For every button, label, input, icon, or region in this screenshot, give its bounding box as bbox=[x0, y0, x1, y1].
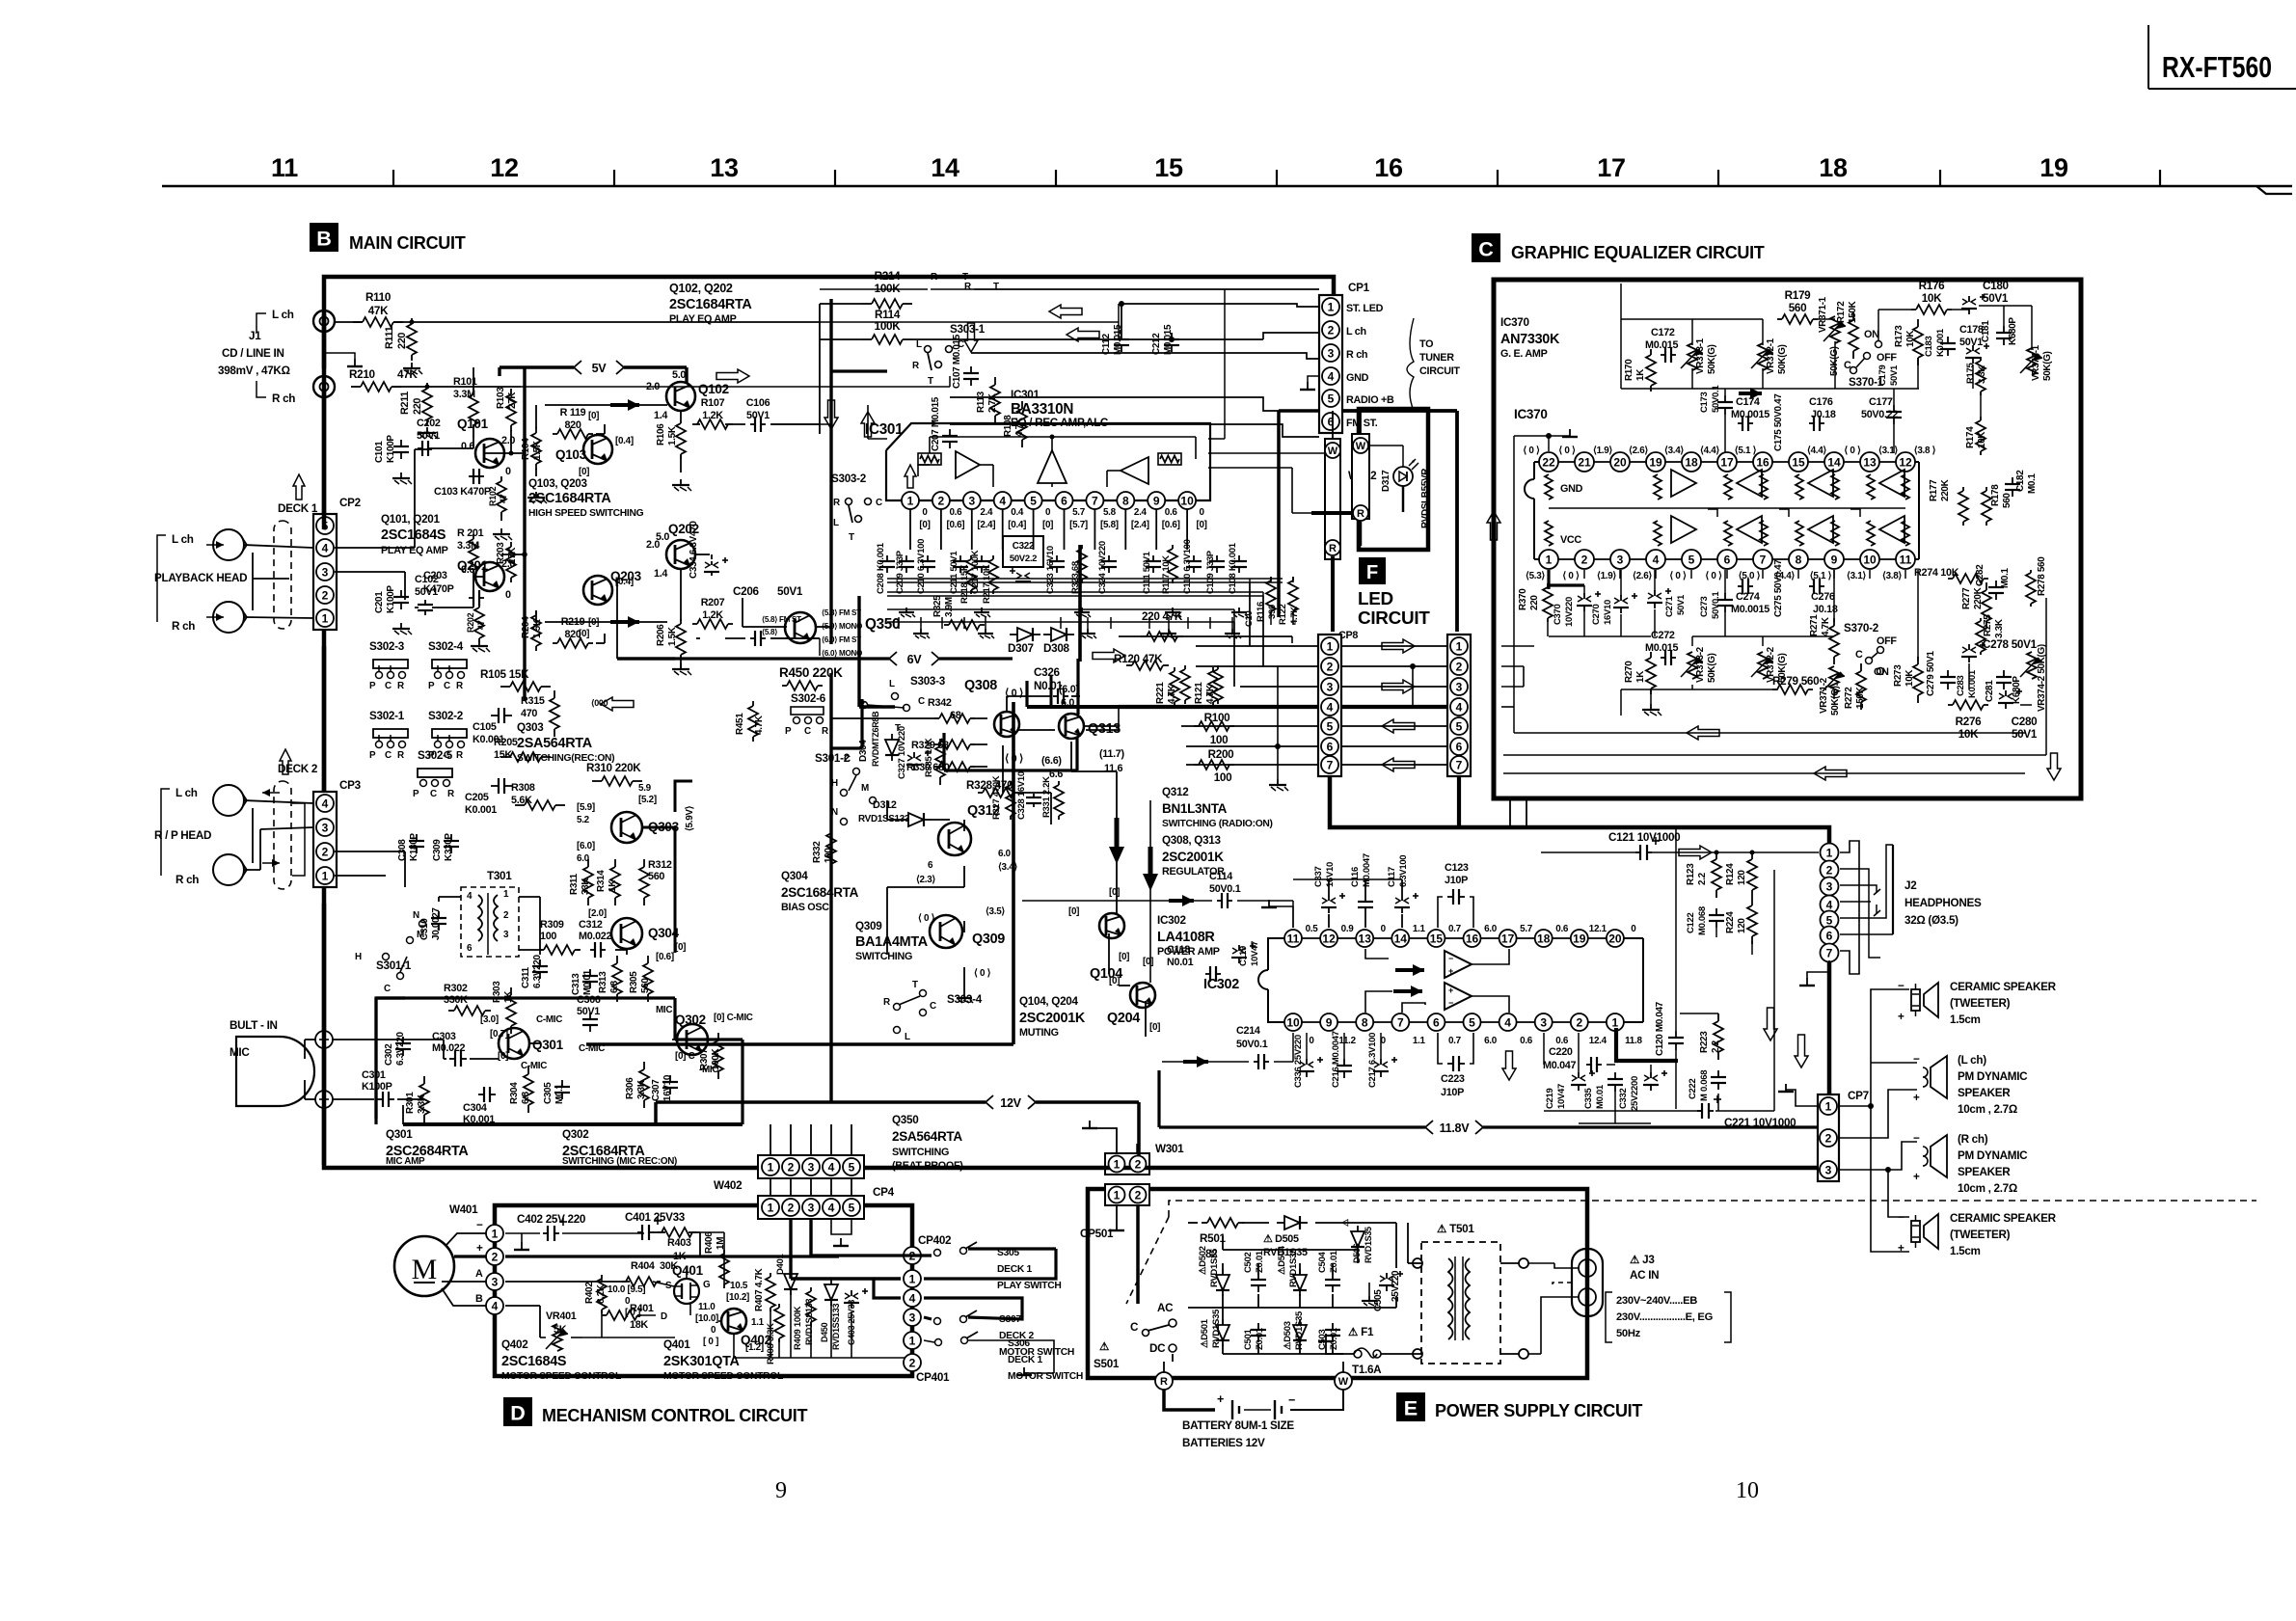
svg-text:W401: W401 bbox=[449, 1203, 478, 1216]
resistor R276 10K bbox=[1948, 700, 1988, 710]
label R330 bbox=[906, 762, 950, 773]
wire muting thick bbox=[656, 1102, 771, 1124]
label R120 bbox=[1114, 653, 1163, 665]
ceramic speaker tweeter bbox=[1898, 980, 1938, 1023]
svg-text:R407 4.7K: R407 4.7K bbox=[754, 1267, 765, 1311]
IC301 pins bbox=[902, 492, 1196, 509]
dynamic speaker bbox=[1913, 1132, 1947, 1183]
label C116 bbox=[1350, 853, 1372, 887]
label battery bbox=[1182, 1419, 1294, 1449]
label C279 vert bbox=[1926, 650, 1936, 696]
label R110 bbox=[365, 291, 392, 317]
svg-text:C-MIC: C-MIC bbox=[521, 1061, 547, 1071]
svg-text:J0.0027: J0.0027 bbox=[431, 907, 442, 940]
label Q202 bbox=[668, 522, 699, 536]
svg-text:IC302: IC302 bbox=[1157, 914, 1186, 927]
resistor R409 100K bbox=[806, 1287, 816, 1326]
IC302 pins bottom bbox=[1284, 1013, 1642, 1046]
capacitor C305 M0.1 bbox=[554, 1080, 570, 1099]
svg-text:[0]: [0] bbox=[675, 942, 686, 953]
svg-text:R403: R403 bbox=[667, 1237, 691, 1249]
capacitor C219 10V47 bbox=[1571, 1070, 1595, 1091]
connector CP402 pins bbox=[904, 1247, 921, 1371]
label R217 bbox=[982, 564, 992, 604]
svg-text:10cm , 2.7Ω: 10cm , 2.7Ω bbox=[1958, 1182, 2017, 1195]
label R273 bbox=[1893, 664, 1915, 687]
label R325b bbox=[932, 595, 955, 617]
svg-text:32Ω (Ø3.5): 32Ω (Ø3.5) bbox=[1904, 914, 1958, 927]
svg-text:50Hz: 50Hz bbox=[1616, 1328, 1641, 1339]
svg-text:C305: C305 bbox=[543, 1082, 554, 1104]
svg-text:150K: 150K bbox=[1855, 686, 1866, 709]
arrow small1 bbox=[591, 698, 608, 708]
svg-text:R170: R170 bbox=[1624, 359, 1634, 381]
svg-text:18: 18 bbox=[1819, 153, 1848, 182]
svg-text:C205: C205 bbox=[465, 792, 489, 803]
wires cp4 verticals bbox=[770, 1124, 851, 1196]
label C201 bbox=[374, 585, 396, 613]
capacitor C216 M0.0047 bbox=[1337, 1059, 1352, 1078]
svg-text:398mV , 47KΩ: 398mV , 47KΩ bbox=[218, 365, 290, 377]
svg-text:PM DYNAMIC: PM DYNAMIC bbox=[1958, 1149, 2028, 1162]
svg-text:3: 3 bbox=[968, 494, 975, 507]
svg-text:S370-2: S370-2 bbox=[1844, 622, 1879, 635]
transistor Q102 bbox=[666, 382, 695, 411]
label C280 bbox=[2012, 716, 2039, 741]
resistor R179 560 bbox=[1777, 314, 1818, 324]
svg-text:⟨ 0 ⟩: ⟨ 0 ⟩ bbox=[1844, 446, 1861, 456]
label R218 bbox=[959, 564, 970, 604]
label CP2 bbox=[339, 497, 362, 509]
svg-text:C216 M0.0047: C216 M0.0047 bbox=[1331, 1031, 1341, 1088]
capacitor C307 16V10 bbox=[662, 1075, 678, 1094]
wire bbox=[1687, 726, 1719, 740]
ruler number 16 bbox=[1374, 153, 1403, 182]
svg-text:5.8: 5.8 bbox=[1103, 507, 1117, 518]
svg-text:L: L bbox=[889, 679, 895, 689]
label R122 bbox=[1278, 604, 1300, 625]
svg-text:C327 10V220: C327 10V220 bbox=[897, 726, 907, 779]
label Q309 v bbox=[918, 906, 1005, 979]
resistor R370 220 bbox=[1543, 583, 1553, 622]
svg-text:13: 13 bbox=[1359, 932, 1372, 945]
capacitor C312 M0.022 bbox=[590, 942, 606, 958]
svg-text:K100P: K100P bbox=[386, 435, 396, 463]
svg-text:C106: C106 bbox=[746, 397, 770, 409]
wires geq upper bbox=[1621, 306, 2032, 453]
svg-text:SPEAKER: SPEAKER bbox=[1958, 1166, 2011, 1178]
capacitor C176 J0.18 bbox=[1809, 416, 1824, 431]
svg-text:2.4: 2.4 bbox=[1134, 507, 1148, 518]
svg-text:[1.2]: [1.2] bbox=[745, 1342, 764, 1353]
svg-text:MIC: MIC bbox=[656, 1005, 672, 1015]
svg-text:18: 18 bbox=[1537, 932, 1551, 945]
svg-text:−: − bbox=[1448, 954, 1453, 963]
connector CP8-right bbox=[1447, 635, 1471, 776]
svg-text:RVD1S35: RVD1S35 bbox=[1294, 1310, 1305, 1350]
svg-text:C182: C182 bbox=[2015, 470, 2026, 492]
wires into CP8 left bbox=[1119, 646, 1318, 779]
svg-text:C313: C313 bbox=[571, 973, 581, 995]
label Q302 bbox=[675, 1013, 706, 1027]
svg-text:B: B bbox=[475, 1293, 483, 1305]
svg-text:Q308, Q313: Q308, Q313 bbox=[1162, 834, 1221, 847]
svg-text:R102: R102 bbox=[488, 486, 498, 506]
svg-text:C304: C304 bbox=[463, 1102, 487, 1114]
wires geq to bus verticals bbox=[1510, 800, 1526, 827]
wire c120 bbox=[1675, 828, 1677, 1109]
capacitor C223 J10P bbox=[1447, 1056, 1465, 1071]
svg-text:R172: R172 bbox=[1836, 301, 1847, 323]
resistor R100 100 bbox=[1194, 721, 1234, 731]
svg-text:0: 0 bbox=[505, 466, 511, 477]
svg-text:8: 8 bbox=[1796, 553, 1802, 566]
wire run to CP1 a bbox=[820, 304, 1119, 322]
svg-text:R327 470K: R327 470K bbox=[991, 775, 1002, 820]
svg-text:50V1: 50V1 bbox=[417, 430, 440, 442]
mechanism control circuit border bbox=[495, 1205, 912, 1376]
gnd stub cp1 bbox=[1308, 376, 1319, 382]
capacitor C336 25V220 bbox=[1299, 1057, 1323, 1077]
svg-text:+: + bbox=[1913, 1092, 1920, 1104]
svg-text:27K: 27K bbox=[507, 392, 518, 409]
potentiometer VR401 5K bbox=[546, 1324, 568, 1351]
svg-text:6.8: 6.8 bbox=[521, 1091, 531, 1104]
svg-text:1.4: 1.4 bbox=[654, 410, 667, 421]
node 11.8V rail bbox=[1425, 1121, 1483, 1135]
svg-text:4: 4 bbox=[1327, 700, 1334, 714]
svg-text:2: 2 bbox=[788, 1160, 795, 1174]
svg-text:C177: C177 bbox=[1869, 396, 1893, 408]
resistor R178 560 bbox=[1982, 487, 1991, 526]
svg-text:6: 6 bbox=[1327, 740, 1334, 753]
svg-text:CP4: CP4 bbox=[873, 1186, 895, 1199]
svg-text:10.0 [9.5]: 10.0 [9.5] bbox=[608, 1284, 645, 1295]
wire w301 to power left bbox=[0, 0, 1, 1]
resistor R303 1K bbox=[506, 987, 516, 1034]
label R342 bbox=[928, 697, 961, 721]
svg-text:Q102: Q102 bbox=[698, 382, 729, 396]
wire bbox=[1764, 1008, 1777, 1040]
svg-text:VR372-1: VR372-1 bbox=[1766, 338, 1776, 374]
wire pin20 to pin1 loop bbox=[0, 0, 1, 1]
wire bbox=[1382, 680, 1415, 693]
svg-text:C208 K0.001: C208 K0.001 bbox=[876, 542, 886, 594]
svg-text:⟨000: ⟨000 bbox=[591, 698, 608, 708]
svg-text:C217 6.3V100: C217 6.3V100 bbox=[1367, 1033, 1378, 1088]
transistor Q103 bbox=[583, 435, 612, 464]
label R408 bbox=[766, 1323, 776, 1364]
capacitor C327 10V220 bbox=[906, 750, 931, 770]
IC301 outline bbox=[886, 423, 1210, 500]
potentiometer VR372-2 bbox=[1751, 652, 1773, 679]
capacitor C335 M0.01 bbox=[1607, 1072, 1623, 1092]
diode D308 bbox=[1043, 628, 1074, 641]
svg-text:C174: C174 bbox=[1736, 396, 1760, 408]
wires long below ic301 bbox=[887, 579, 1283, 687]
svg-text:17: 17 bbox=[1501, 932, 1515, 945]
svg-text:[0]: [0] bbox=[588, 411, 599, 421]
capacitor C212 M0.015 bbox=[1164, 333, 1179, 352]
wire cp501 down bbox=[0, 0, 1, 1]
svg-text:[0.6]: [0.6] bbox=[1162, 520, 1180, 530]
svg-text:15K: 15K bbox=[494, 749, 512, 761]
mic amp thick box sides bbox=[376, 998, 743, 1124]
svg-text:M0.01: M0.01 bbox=[582, 969, 593, 995]
svg-text:MECHANISM CONTROL CIRCUIT: MECHANISM CONTROL CIRCUIT bbox=[542, 1406, 807, 1425]
label C178 bbox=[1959, 324, 1984, 348]
svg-text:7: 7 bbox=[1092, 494, 1098, 507]
svg-text:47: 47 bbox=[499, 494, 508, 503]
label R302 bbox=[444, 983, 468, 1006]
svg-text:⟨5.9V⟩: ⟨5.9V⟩ bbox=[685, 805, 695, 831]
resistor R315 470 bbox=[550, 690, 559, 737]
svg-text:2: 2 bbox=[1327, 660, 1334, 673]
svg-text:R: R bbox=[912, 361, 919, 371]
label R210 bbox=[349, 368, 418, 381]
svg-text:C401 25V33: C401 25V33 bbox=[625, 1211, 686, 1224]
svg-text:R278 560: R278 560 bbox=[2037, 556, 2047, 596]
ruler tick bbox=[834, 170, 836, 186]
svg-text:⟨3.5⟩: ⟨3.5⟩ bbox=[986, 906, 1005, 917]
svg-text:R207: R207 bbox=[701, 597, 725, 608]
wire bbox=[1814, 767, 1847, 780]
svg-text:R: R bbox=[833, 498, 840, 508]
label Q102,Q202 PLAY EQ AMP bbox=[669, 282, 752, 325]
svg-text:2: 2 bbox=[322, 845, 329, 858]
svg-text:C270: C270 bbox=[1591, 604, 1602, 625]
resistor R270 1K bbox=[1646, 652, 1656, 694]
capacitor C278 50V1 bbox=[1961, 642, 1985, 662]
switch S302-1 bbox=[369, 710, 408, 761]
svg-text:10V47: 10V47 bbox=[1250, 941, 1260, 966]
svg-text:1.1: 1.1 bbox=[1413, 1036, 1426, 1046]
IC370 wire top left bbox=[1514, 436, 1549, 733]
capacitor C106 50V1 bbox=[750, 417, 766, 432]
svg-text:3: 3 bbox=[1825, 1163, 1832, 1176]
svg-text:C504: C504 bbox=[1317, 1251, 1328, 1273]
ruler tick bbox=[392, 170, 394, 186]
label D450 bbox=[820, 1304, 841, 1350]
label R309 bbox=[540, 919, 564, 942]
power dashed box bbox=[1126, 1201, 2256, 1304]
svg-text:R279 560: R279 560 bbox=[1772, 675, 1820, 688]
svg-text:18: 18 bbox=[1685, 455, 1698, 469]
svg-text:9: 9 bbox=[1326, 1015, 1333, 1029]
label R201 bbox=[457, 527, 484, 552]
svg-text:R116: R116 bbox=[1256, 602, 1266, 622]
svg-text:68: 68 bbox=[950, 710, 961, 721]
label C326 bbox=[1034, 666, 1063, 692]
ground bbox=[403, 363, 422, 374]
svg-text:C271: C271 bbox=[1664, 595, 1675, 617]
svg-text:C112: C112 bbox=[1101, 333, 1112, 355]
connector W302 bar1 bbox=[1325, 439, 1340, 559]
wires mic amp bbox=[333, 1040, 677, 1124]
wire cd gnd stub bbox=[324, 353, 355, 359]
label R329 bbox=[911, 740, 949, 751]
svg-text:M0.1: M0.1 bbox=[2027, 473, 2038, 494]
label R409 bbox=[793, 1306, 803, 1350]
diode D506 bbox=[1351, 1226, 1364, 1253]
capacitor C102 50V1 bbox=[418, 600, 433, 615]
label DECK 1 bbox=[278, 502, 318, 515]
label C118 N0.01 bbox=[1167, 944, 1194, 968]
ground bbox=[514, 1242, 529, 1250]
resistor R204 1.5K bbox=[531, 610, 541, 651]
wire c214 bbox=[1162, 1033, 1293, 1062]
svg-text:230V~240V.....EB: 230V~240V.....EB bbox=[1616, 1295, 1697, 1307]
label CP8b bbox=[1338, 630, 1358, 641]
svg-text:P: P bbox=[369, 750, 376, 761]
svg-text:⚠ F1: ⚠ F1 bbox=[1348, 1326, 1374, 1338]
svg-text:19: 19 bbox=[1649, 455, 1662, 469]
svg-text:Q350: Q350 bbox=[892, 1114, 919, 1126]
thick wire regulator loop bbox=[1050, 675, 1053, 707]
label R219 bbox=[561, 616, 585, 640]
switch S501 bbox=[1094, 1302, 1176, 1370]
label DECK 2 bbox=[278, 763, 318, 775]
label R307 bbox=[699, 1047, 721, 1070]
svg-text:C-MIC: C-MIC bbox=[536, 1014, 562, 1025]
label R174 bbox=[1965, 426, 1987, 448]
svg-text:W301: W301 bbox=[1155, 1143, 1184, 1155]
wire bbox=[1395, 964, 1424, 976]
svg-text:10K: 10K bbox=[1958, 728, 1979, 741]
label Q304 bbox=[648, 926, 680, 940]
resistor R403 1K bbox=[658, 1228, 696, 1237]
resistor R174 10K bbox=[1976, 417, 1985, 455]
svg-text:2SA564RTA: 2SA564RTA bbox=[892, 1129, 962, 1144]
label C173 bbox=[1699, 385, 1721, 413]
svg-text:M0.022: M0.022 bbox=[579, 931, 612, 942]
connector CP3 bbox=[313, 792, 337, 887]
IC370 internal mid line bbox=[1549, 507, 1905, 509]
svg-text:M0.015: M0.015 bbox=[1645, 339, 1679, 351]
svg-text:C306: C306 bbox=[577, 994, 601, 1006]
IC302 amp triangle bottom bbox=[1445, 983, 1472, 1010]
svg-text:⟨ 0 ⟩: ⟨ 0 ⟩ bbox=[974, 968, 991, 979]
svg-text:R105 15K: R105 15K bbox=[480, 668, 529, 681]
svg-text:10: 10 bbox=[1180, 494, 1194, 507]
label R202 bbox=[466, 612, 486, 633]
IC301 internal resistor 2 bbox=[1158, 453, 1181, 465]
capacitor C270 16V10 bbox=[1613, 593, 1637, 613]
label J3 bbox=[1630, 1254, 1659, 1282]
svg-text:16V10: 16V10 bbox=[662, 1074, 673, 1101]
svg-text:4: 4 bbox=[492, 1299, 499, 1312]
wire R210 right bbox=[392, 385, 521, 390]
label RVD1SS133a bbox=[804, 1299, 814, 1345]
wire battery R path bbox=[0, 0, 1, 1]
capacitor C309 K330P bbox=[444, 834, 459, 853]
resistor R116 390 bbox=[1266, 577, 1276, 615]
connector J1 L ch jack bbox=[313, 311, 335, 332]
label R117 bbox=[1161, 555, 1172, 594]
svg-text:13: 13 bbox=[1863, 455, 1877, 469]
label R104 bbox=[521, 438, 543, 460]
svg-text:[5.2]: [5.2] bbox=[638, 795, 657, 805]
wires t301 area bbox=[335, 851, 627, 955]
wire r region labels bbox=[931, 272, 1319, 289]
label POWER SUPPLY CIRCUIT bbox=[1435, 1401, 1642, 1420]
capacitor C283 K0.001 bbox=[1940, 670, 1956, 689]
svg-text:BATTERIES 12V: BATTERIES 12V bbox=[1182, 1437, 1265, 1449]
capacitor C337 16V10 bbox=[1321, 893, 1345, 913]
svg-text:1: 1 bbox=[322, 611, 329, 625]
svg-text:C312: C312 bbox=[579, 919, 603, 931]
IC370 pins top row bbox=[1523, 446, 1935, 472]
wire q313 collector to cp8 thick2 bbox=[1084, 725, 1119, 727]
svg-text:10K: 10K bbox=[1904, 669, 1915, 687]
svg-text:G: G bbox=[703, 1280, 711, 1290]
wire c114 bbox=[1022, 901, 1293, 928]
svg-text:C: C bbox=[876, 498, 882, 508]
label C504 bbox=[1317, 1250, 1339, 1273]
svg-text:C370: C370 bbox=[1553, 604, 1563, 625]
label R103 bbox=[496, 387, 518, 409]
svg-text:[0.4]: [0.4] bbox=[1008, 520, 1026, 530]
resistor R406 1M bbox=[719, 1250, 729, 1288]
svg-text:M0.022: M0.022 bbox=[432, 1042, 466, 1054]
label MAIN CIRCUIT bbox=[349, 233, 466, 253]
svg-text:22: 22 bbox=[1542, 455, 1555, 469]
svg-text:C: C bbox=[444, 681, 450, 691]
svg-text:PLAY EQ AMP: PLAY EQ AMP bbox=[669, 313, 737, 325]
label VR371-1 bbox=[1818, 296, 1840, 376]
svg-text:R277: R277 bbox=[1961, 587, 1972, 609]
svg-text:33K: 33K bbox=[581, 878, 591, 895]
svg-text:4: 4 bbox=[1504, 1015, 1511, 1029]
transistor Q204 bbox=[1130, 983, 1155, 1008]
svg-text:BA3310N: BA3310N bbox=[1011, 401, 1073, 418]
label C180 bbox=[1983, 280, 2010, 305]
svg-text:10V220: 10V220 bbox=[1564, 597, 1575, 627]
svg-text:BA1A4MTA: BA1A4MTA bbox=[855, 934, 929, 950]
svg-text:C103 K470P: C103 K470P bbox=[434, 486, 491, 498]
svg-text:9: 9 bbox=[1153, 494, 1160, 507]
svg-text:0.6: 0.6 bbox=[461, 564, 474, 576]
svg-text:R ch: R ch bbox=[176, 874, 199, 886]
diode D505 bbox=[1277, 1216, 1308, 1229]
svg-text:R328 470: R328 470 bbox=[966, 779, 1013, 792]
svg-text:R450 220K: R450 220K bbox=[779, 665, 843, 680]
label R323 bbox=[1070, 561, 1081, 594]
svg-text:C: C bbox=[430, 789, 437, 799]
svg-text:K680P: K680P bbox=[2008, 317, 2018, 345]
svg-text:C118: C118 bbox=[1167, 944, 1190, 956]
wire bbox=[1169, 895, 1194, 906]
wire cap lead bbox=[1343, 1033, 1345, 1059]
switch S303-2 bbox=[831, 473, 882, 543]
svg-text:4.7K: 4.7K bbox=[1289, 607, 1300, 625]
wire bbox=[601, 697, 634, 711]
node 5V rail bbox=[574, 361, 624, 375]
label C335 bbox=[1583, 1084, 1606, 1109]
svg-text:4: 4 bbox=[1456, 700, 1463, 714]
svg-text:R370: R370 bbox=[1518, 588, 1528, 610]
wire bbox=[1382, 639, 1415, 653]
wire bias area bbox=[376, 998, 405, 1119]
resistor R111 220 bbox=[407, 318, 417, 361]
svg-text:9: 9 bbox=[1831, 553, 1838, 566]
label C123 bbox=[1445, 862, 1469, 886]
svg-text:M0.068: M0.068 bbox=[1697, 906, 1708, 935]
wire run cp8 a bbox=[1291, 636, 1293, 643]
svg-text:OFF: OFF bbox=[1877, 352, 1897, 364]
label C332 bbox=[1618, 1076, 1640, 1111]
label C501 bbox=[1243, 1327, 1265, 1350]
